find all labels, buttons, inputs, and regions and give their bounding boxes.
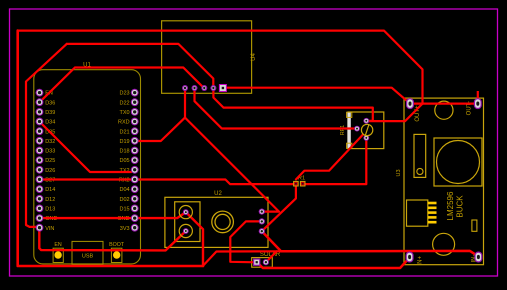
wire RP1 top pad to OUT+ junction — [366, 104, 422, 122]
wire GND row across U1 to U2 pad1 — [40, 212, 186, 218]
U1 pad right 1 — [131, 89, 139, 97]
connector SOLAR outline — [252, 258, 273, 268]
svg-text:D34: D34 — [45, 120, 55, 126]
button pad BOOT — [113, 251, 120, 258]
U3 IC pin 3 — [428, 211, 437, 214]
U3 pad IN- — [475, 252, 482, 262]
U3 IC pin 5 — [428, 221, 437, 224]
via 3 — [259, 228, 265, 234]
wire U1.VIN down to button rail and U2 pad2 — [39, 227, 186, 251]
wire D36 to U4 pad3 — [40, 68, 205, 103]
resistor R1 pad 2 — [300, 181, 305, 186]
wire R1 pad1 to via3 — [262, 184, 296, 231]
U2 pin box — [175, 202, 200, 242]
svg-text:D04: D04 — [120, 187, 130, 193]
U1 pad right 10 — [131, 176, 139, 184]
svg-text:U2: U2 — [214, 191, 222, 197]
wire OUT+ to OUT- row — [410, 102, 478, 104]
svg-text:RP1: RP1 — [340, 125, 346, 135]
U1 pad left 3 — [36, 108, 44, 116]
SOLAR pad 2 (round) — [263, 259, 269, 265]
wire U4 pad1 branch to via1 — [185, 118, 279, 212]
U4 pad 5 (square) — [219, 85, 226, 92]
RP1 pad wiper — [354, 126, 360, 132]
via 2 — [259, 218, 265, 224]
wire D34 to TX2 — [40, 122, 135, 172]
svg-text:D18: D18 — [120, 149, 130, 155]
U4 pad 3 — [201, 85, 207, 91]
svg-text:EN: EN — [54, 242, 62, 248]
svg-text:BOOT: BOOT — [109, 242, 125, 248]
U3 IC pin 1 — [428, 202, 437, 205]
wire U4 pad1 to D19 — [135, 88, 185, 142]
U1 pad right 6 — [131, 137, 139, 145]
wire via2 to SOLAR pad1 — [230, 221, 261, 262]
resistor R1 pad 1 — [294, 181, 299, 186]
svg-text:D05: D05 — [120, 158, 130, 164]
U1 pad left 13 — [36, 205, 44, 213]
U4 pad 4 — [210, 85, 216, 91]
wire U2 pad1 to bottom rail — [186, 212, 203, 266]
potentiometer RP1 outline — [348, 112, 384, 149]
U3 diode — [472, 220, 477, 231]
svg-text:TX0: TX0 — [120, 110, 130, 116]
U3 bottom capacitor circle — [433, 233, 455, 255]
svg-text:D25: D25 — [45, 158, 55, 164]
U3 pad OUT+ — [407, 99, 414, 109]
svg-text:U3: U3 — [396, 169, 402, 176]
U4 pad 1 — [182, 85, 188, 91]
U3 regulator IC LM2596 — [407, 200, 428, 226]
module U1 outline — [34, 70, 141, 264]
U1 pad right 2 — [131, 98, 139, 106]
button pad EN — [54, 251, 61, 258]
wire net VCC : left vertical into U1.VIN — [26, 44, 67, 227]
U1 pad right 4 — [131, 118, 139, 126]
svg-text:D22: D22 — [120, 100, 130, 106]
U3 big capacitor — [434, 138, 482, 186]
U1 pad left 8 — [36, 156, 44, 164]
SOLAR pad 1 (square) — [254, 259, 260, 265]
U1 pad left 9 — [36, 166, 44, 174]
wire SOLAR pad1 to IN+ bottom rail — [258, 258, 410, 269]
U4 pad 2 — [192, 85, 198, 91]
U2 pad 1 — [179, 206, 192, 219]
wire net VIN : top-left loop — [18, 31, 423, 104]
svg-text:D19: D19 — [120, 139, 130, 145]
U1 pad left 15 — [36, 224, 44, 232]
U3 pad OUT- — [474, 99, 481, 109]
wire U4 pad2 to RP1 wiper — [195, 88, 358, 129]
U1 pad left 1 — [36, 89, 44, 97]
svg-text:D32: D32 — [45, 139, 55, 145]
svg-text:D15: D15 — [120, 207, 130, 213]
U2 pad 2 — [179, 224, 192, 237]
U1 pad right 13 — [131, 205, 139, 213]
svg-text:RXD: RXD — [118, 120, 130, 126]
svg-text:D26: D26 — [45, 168, 55, 174]
U1 pad left 7 — [36, 147, 44, 155]
module U4 outline — [162, 21, 252, 94]
wire D27/RX2 row to R1 pad1 — [40, 180, 295, 185]
wire R1 pad1 to RP1 wiper region — [296, 135, 363, 180]
svg-text:LM2596: LM2596 — [446, 191, 455, 220]
RP1 screw — [361, 124, 372, 135]
svg-text:D13: D13 — [45, 207, 55, 213]
svg-text:D36: D36 — [45, 100, 55, 106]
svg-text:VIN: VIN — [45, 226, 54, 232]
U1 pad left 12 — [36, 195, 44, 203]
U1 pad left 2 — [36, 98, 44, 106]
svg-text:D21: D21 — [120, 129, 130, 135]
U1 pad left 5 — [36, 127, 44, 135]
svg-text:USB: USB — [82, 254, 94, 260]
svg-text:D33: D33 — [45, 149, 55, 155]
U1 pad right 15 — [131, 224, 139, 232]
U3 IC pin 4 — [428, 216, 437, 219]
svg-text:3V3: 3V3 — [120, 226, 130, 232]
svg-text:D02: D02 — [120, 197, 130, 203]
svg-text:BUCK: BUCK — [456, 195, 465, 218]
wire top horizontal to U4 pad4 — [67, 44, 214, 88]
U3 inductor — [414, 134, 426, 177]
wire SOLAR pad2 up to rail — [266, 251, 277, 262]
connector USB — [72, 241, 103, 264]
U1 pad left 14 — [36, 214, 44, 222]
U1 pad left 11 — [36, 185, 44, 193]
U1 pad left 6 — [36, 137, 44, 145]
wire OUT- stub — [477, 91, 479, 104]
svg-text:D12: D12 — [45, 197, 55, 203]
svg-text:D23: D23 — [120, 91, 130, 97]
U3 capacitor C-in circle — [435, 101, 453, 119]
via 1 — [259, 209, 265, 215]
module U2 outline — [165, 197, 268, 247]
svg-text:U4: U4 — [251, 53, 257, 61]
U3 IC pin 2 — [428, 207, 437, 210]
svg-text:D39: D39 — [45, 110, 55, 116]
wire bottom rail fragment to IN+ — [203, 251, 282, 265]
U1 pad right 14 — [131, 214, 139, 222]
wire U4 pad4 to RP1 top pad — [213, 88, 372, 121]
U1 pad right 7 — [131, 147, 139, 155]
svg-text:D14: D14 — [45, 187, 55, 193]
U1 pad right 11 — [131, 185, 139, 193]
U1 pad right 9 — [131, 166, 139, 174]
U1 pad right 8 — [131, 156, 139, 164]
button EN — [53, 248, 63, 262]
wire via3 rail to IN- — [262, 231, 478, 256]
U1 pad left 10 — [36, 176, 44, 184]
module U3 (LM2596 buck) outline — [404, 98, 484, 265]
U1 pad right 5 — [131, 127, 139, 135]
U1 pad left 4 — [36, 118, 44, 126]
U2 barrel ring — [212, 211, 234, 233]
button BOOT — [111, 248, 122, 262]
RP1 pad top — [363, 118, 369, 124]
wire U4 pad5 to OUT+ — [223, 88, 410, 104]
svg-text:IN+: IN+ — [418, 256, 424, 266]
U1 pad right 3 — [131, 108, 139, 116]
U1 pad right 12 — [131, 195, 139, 203]
RP1 pad bottom — [363, 135, 369, 141]
U3 pad IN+ — [406, 252, 413, 262]
wire R1 pad2 to RP1 bottom pad — [303, 138, 367, 184]
